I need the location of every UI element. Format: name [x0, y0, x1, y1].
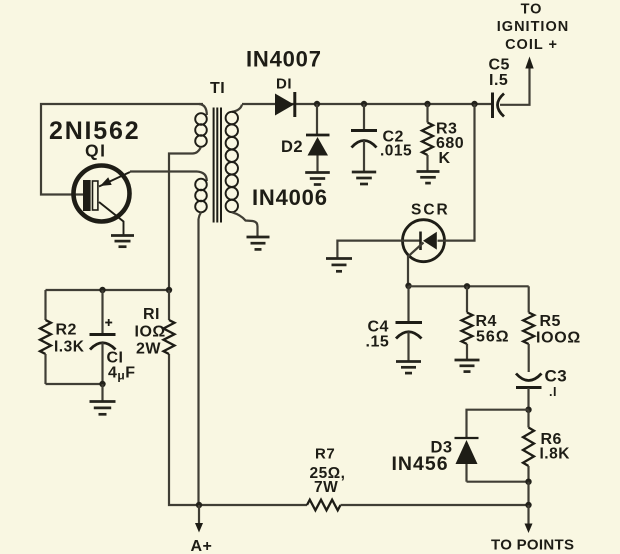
- wire: bias bottom: [46, 383, 103, 385]
- svg-text:IN456: IN456: [392, 453, 449, 475]
- ground (D2): [305, 173, 330, 185]
- wire: top-left loop from bus to Q1 base: [41, 104, 203, 195]
- diode D2 IN4006: [306, 135, 330, 172]
- svg-text:TI: TI: [210, 80, 225, 97]
- wire: D2 stem: [316, 104, 318, 134]
- svg-text:RI: RI: [143, 306, 160, 323]
- transistor Q1 2N1562: [74, 166, 131, 236]
- svg-text:R7: R7: [315, 446, 335, 463]
- capacitor C2 .015: [351, 104, 377, 172]
- wire: D3 branch top: [467, 410, 529, 437]
- svg-text:C3: C3: [545, 367, 568, 386]
- svg-text:TO POINTS: TO POINTS: [491, 537, 574, 554]
- SCR gate wire: [408, 243, 424, 286]
- wire: C5 to ignition coil arrow: [500, 67, 530, 105]
- node: A+ junction: [196, 502, 202, 508]
- node: R6 / D3 bottom junction: [525, 479, 531, 485]
- resistor R5 100 ohm: [523, 286, 534, 372]
- transformer T1: [193, 104, 258, 236]
- svg-text:IN4007: IN4007: [246, 47, 322, 72]
- resistor R2 1.3K: [40, 290, 51, 384]
- svg-text:R2: R2: [56, 322, 77, 339]
- diode D1 IN4007: [275, 92, 295, 117]
- svg-text:IOΩ: IOΩ: [135, 324, 166, 341]
- resistor R1 10 ohm 2W: [164, 290, 175, 354]
- svg-text:TO: TO: [521, 2, 543, 18]
- capacitor C4 .15: [396, 286, 423, 361]
- node: bottom right junction: [525, 502, 531, 508]
- ground (SCR cathode): [326, 259, 352, 272]
- svg-text:I.8K: I.8K: [540, 446, 571, 463]
- svg-text:7W: 7W: [314, 479, 338, 496]
- node: R4 junction: [464, 283, 470, 289]
- node: R1 top junction: [166, 287, 172, 293]
- capacitor C3 .1: [516, 374, 542, 410]
- svg-text:DI: DI: [276, 76, 292, 93]
- SCR: [402, 220, 446, 286]
- wire: Q1 emitter to T1 lower primary: [130, 170, 197, 172]
- node: bus / R3 junction: [424, 101, 430, 107]
- wire: gate node bus to R5: [409, 285, 529, 287]
- node: bus / D2 junction: [314, 101, 320, 107]
- svg-text:56Ω: 56Ω: [476, 329, 510, 346]
- svg-text:D2: D2: [281, 138, 303, 156]
- svg-text:R4: R4: [476, 313, 497, 330]
- node: C1 top junction: [99, 287, 105, 293]
- ground (C2): [352, 172, 376, 184]
- left bias network: top wire: [46, 289, 170, 291]
- svg-text:K: K: [439, 150, 451, 167]
- svg-text:.015: .015: [380, 143, 412, 160]
- wire: D3 branch bottom: [467, 481, 529, 483]
- wire: to points node: [527, 482, 529, 505]
- wire: bus to SCR anode: [446, 104, 475, 241]
- ground (R3): [417, 172, 440, 184]
- arrow to points: [527, 505, 529, 524]
- wire: bottom A+ bus left of R7: [169, 354, 307, 505]
- ground (Q1 collector): [111, 236, 134, 247]
- node: bus / SCR branch junction: [471, 101, 477, 107]
- svg-text:I.3K: I.3K: [54, 339, 85, 356]
- arrow to A+: [198, 505, 200, 524]
- svg-text:I.5: I.5: [489, 72, 508, 89]
- capacitor C1 4uF (electrolytic, + mark): [90, 290, 116, 384]
- ground (T1 secondary): [247, 237, 270, 249]
- wire: SCR cathode to ground: [337, 241, 401, 258]
- svg-text:R5: R5: [540, 313, 561, 330]
- svg-text:2W: 2W: [136, 341, 161, 358]
- wire: main HV bus: [242, 103, 493, 105]
- svg-text:IN4006: IN4006: [252, 185, 328, 210]
- svg-text:.15: .15: [366, 334, 390, 351]
- svg-text:SCR: SCR: [411, 202, 450, 219]
- node: C1 bottom junction: [99, 381, 105, 387]
- diode D3 IN456: [455, 438, 479, 482]
- ground (R4): [455, 360, 480, 372]
- svg-text:QI: QI: [85, 141, 106, 161]
- ground (C4): [396, 362, 421, 374]
- svg-text:A+: A+: [191, 538, 213, 554]
- wire: bottom bus right of R7: [341, 504, 529, 506]
- svg-text:C5: C5: [489, 57, 510, 74]
- wire: T1 primary tap down to R1 node: [169, 154, 193, 291]
- svg-text:IGNITION: IGNITION: [497, 19, 569, 35]
- node: bus / C2 junction: [361, 101, 367, 107]
- capacitor C5 1.5: [493, 93, 505, 119]
- svg-text:COIL +: COIL +: [505, 37, 558, 53]
- resistor R4 56 ohm: [462, 286, 473, 359]
- svg-text:.I: .I: [549, 385, 557, 399]
- node: gate / C4 junction: [405, 283, 411, 289]
- resistor R7 25 ohm 7W: [307, 500, 341, 511]
- wire: to ground: [101, 384, 103, 401]
- svg-text:IOOΩ: IOOΩ: [536, 330, 581, 347]
- ground (C1): [90, 402, 116, 415]
- wire: A+ line from T1 lower primary down: [197, 219, 199, 505]
- arrow to ignition coil: [525, 57, 533, 69]
- resistor R3 680K: [422, 104, 433, 171]
- resistor R6 1.8K: [523, 410, 534, 482]
- node: C3 / R6 / D3 junction: [525, 407, 531, 413]
